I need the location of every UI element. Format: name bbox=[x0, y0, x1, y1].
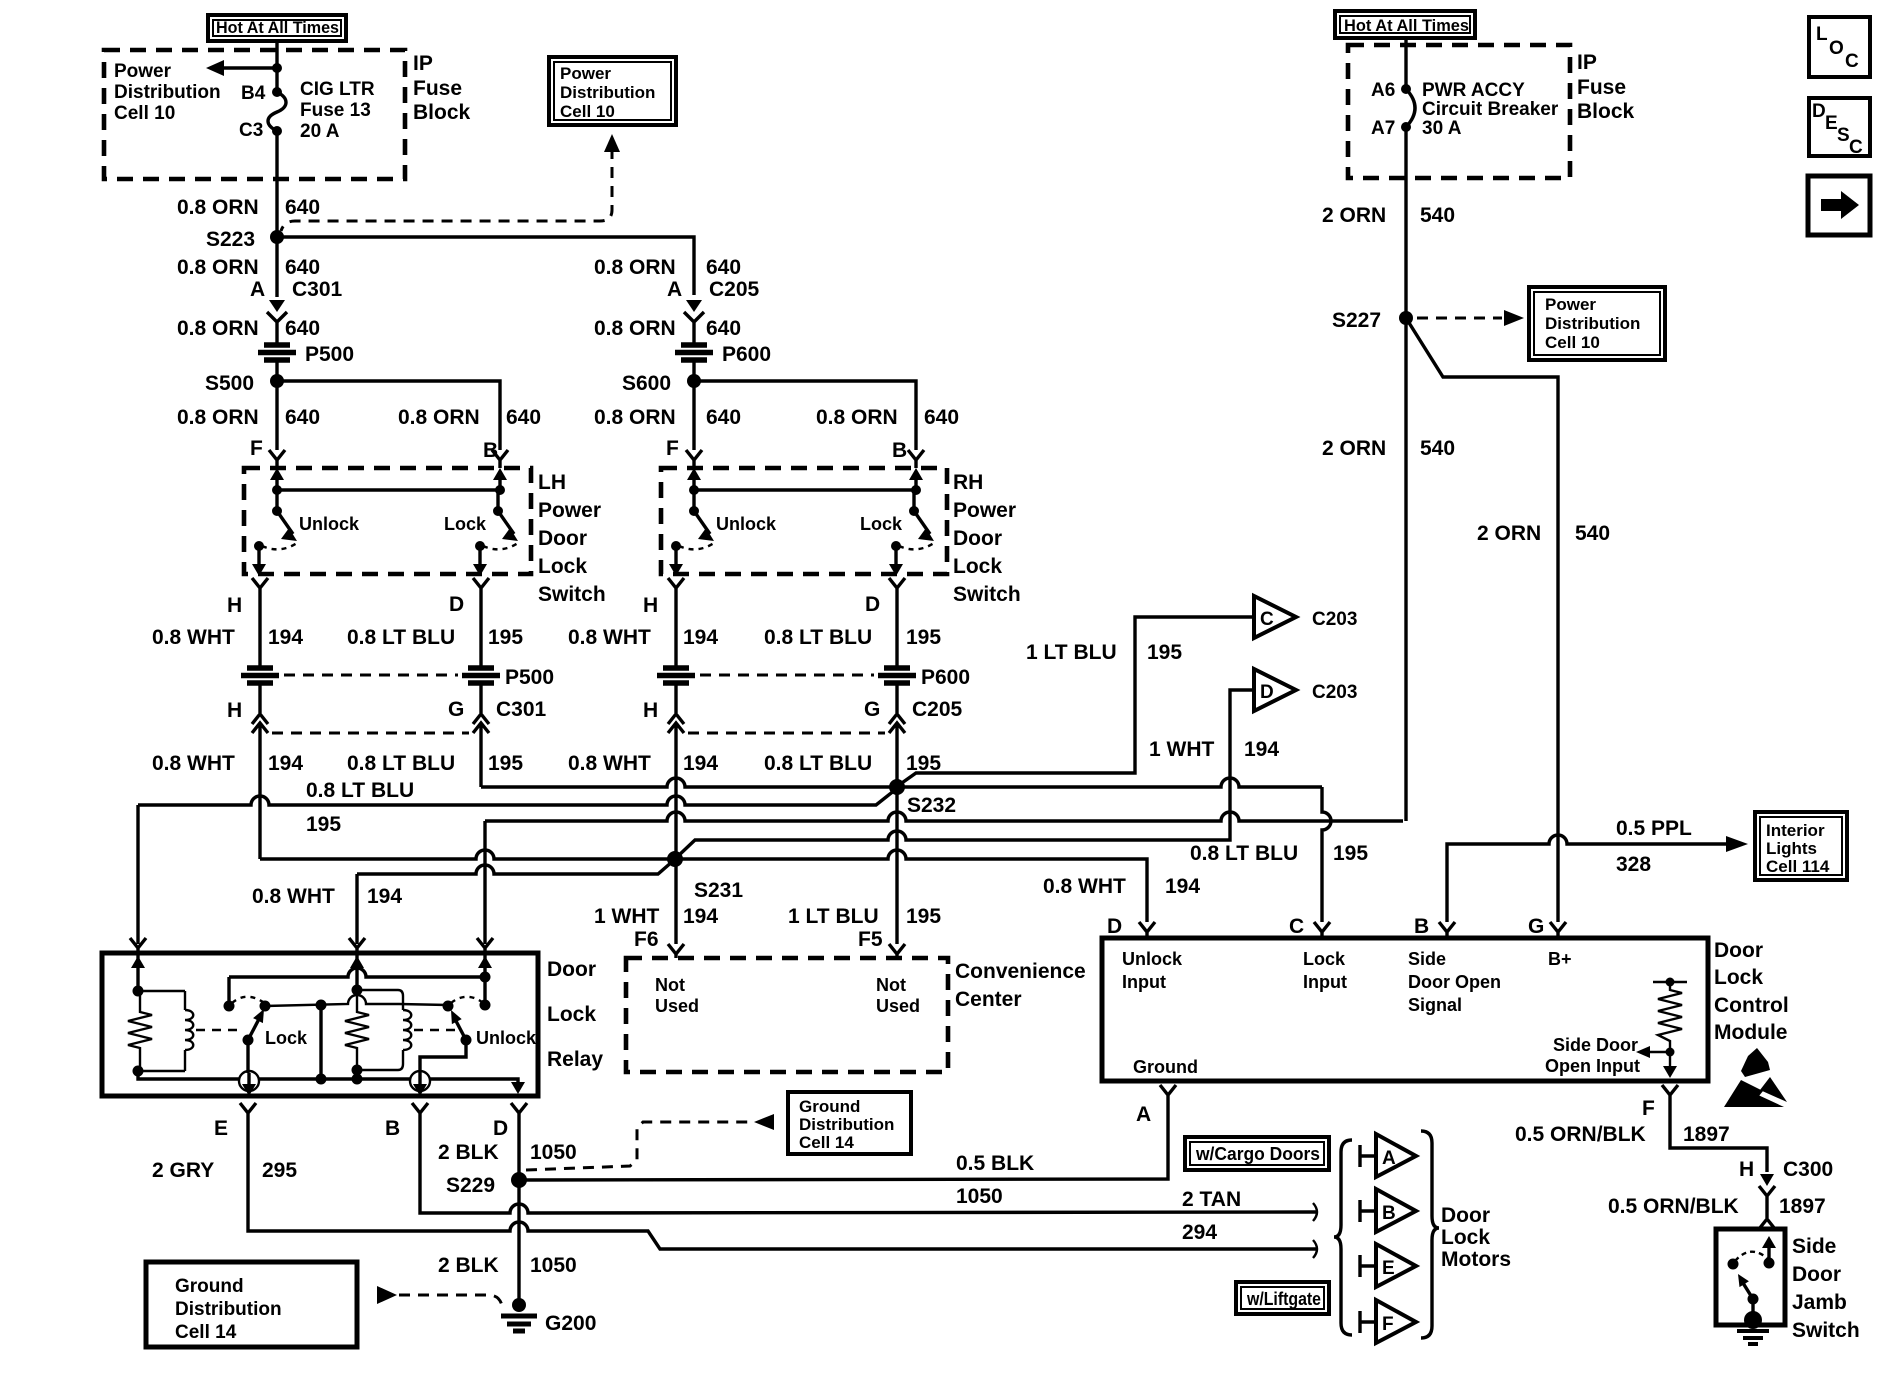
motors closing brace bbox=[1421, 1131, 1439, 1338]
hook at motor B wire end bbox=[1313, 1203, 1317, 1221]
svg-text:2 TAN: 2 TAN bbox=[1182, 1188, 1241, 1211]
wire module F to C300 (0.5 ORN/BLK) bbox=[1670, 1099, 1767, 1172]
svg-text:2 BLK: 2 BLK bbox=[438, 1254, 499, 1277]
label 0.8 LT BLU 195 (long run) bbox=[306, 779, 414, 836]
wire S227 branch to B+ column bbox=[1406, 318, 1558, 922]
svg-text:Fuse: Fuse bbox=[1577, 76, 1626, 99]
svg-text:640: 640 bbox=[506, 406, 541, 429]
svg-text:Door Open: Door Open bbox=[1408, 972, 1501, 992]
label 1 LT BLU 195 (C203 C leg) bbox=[1026, 641, 1182, 664]
svg-text:Distribution: Distribution bbox=[114, 82, 221, 103]
svg-text:Hot At All Times: Hot At All Times bbox=[216, 18, 339, 37]
svg-text:0.8 ORN: 0.8 ORN bbox=[816, 406, 898, 429]
svg-text:D: D bbox=[865, 593, 880, 616]
svg-text:S: S bbox=[1837, 125, 1850, 146]
pin letters H G C301 / H G C205 bbox=[227, 698, 963, 722]
dashed link lock coil to lock switch bbox=[196, 1029, 238, 1031]
wire S231 to C203 D (y840) bbox=[677, 690, 1254, 857]
dashed link P600 bbox=[700, 674, 874, 677]
wire relay C run (y821) to S227 vertical bbox=[485, 812, 1403, 821]
svg-text:H: H bbox=[643, 594, 658, 617]
svg-text:195: 195 bbox=[1147, 641, 1182, 664]
IP fuse block dashed box (left) bbox=[104, 50, 405, 179]
relay D exit arrow bbox=[511, 1082, 525, 1094]
connector fork relay pin C bbox=[477, 938, 493, 953]
svg-text:0.8 LT BLU: 0.8 LT BLU bbox=[764, 752, 872, 775]
svg-text:D: D bbox=[449, 593, 464, 616]
svg-text:2 BLK: 2 BLK bbox=[438, 1141, 499, 1164]
wire LH D down to corner bbox=[479, 744, 482, 787]
connector C205 in-line bbox=[667, 278, 760, 330]
svg-text:Lock: Lock bbox=[444, 514, 487, 534]
svg-text:Hot At All Times: Hot At All Times bbox=[1344, 16, 1469, 35]
svg-text:Door: Door bbox=[538, 527, 587, 550]
label 0.8 WHT 194 (module D leg) bbox=[1043, 875, 1200, 898]
grommet P600 bbox=[675, 343, 771, 366]
svg-text:0.8 LT BLU: 0.8 LT BLU bbox=[306, 779, 414, 802]
svg-text:Lock: Lock bbox=[538, 555, 587, 578]
svg-text:Lock: Lock bbox=[860, 514, 903, 534]
fuse CIG LTR Fuse 13 20A bbox=[239, 79, 375, 142]
svg-text:1050: 1050 bbox=[530, 1141, 577, 1164]
label 2 GRY 295 bbox=[152, 1159, 297, 1182]
label 0.5 ORN/BLK 1897 (lower) bbox=[1608, 1195, 1826, 1218]
svg-text:IP: IP bbox=[413, 52, 433, 75]
svg-text:P500: P500 bbox=[505, 666, 554, 689]
label "IP Fuse Block" (right) bbox=[1577, 51, 1635, 123]
svg-text:G200: G200 bbox=[545, 1312, 596, 1335]
svg-text:w/Cargo Doors: w/Cargo Doors bbox=[1195, 1144, 1320, 1164]
relay box bbox=[102, 953, 538, 1096]
connector fork D below LH switch bbox=[473, 578, 489, 597]
svg-text:C205: C205 bbox=[709, 278, 760, 301]
label Convenience Center bbox=[955, 960, 1086, 1011]
label 0.8 ORN 640 above P500 bbox=[177, 317, 320, 340]
svg-text:194: 194 bbox=[683, 752, 718, 775]
svg-text:20 A: 20 A bbox=[300, 121, 340, 142]
ESD symbol bbox=[1724, 1048, 1787, 1107]
label Door Lock Control Module bbox=[1714, 939, 1789, 1044]
svg-text:PWR ACCY: PWR ACCY bbox=[1422, 80, 1525, 101]
connector fork relay pin D bbox=[511, 1103, 527, 1120]
F6 fork bbox=[668, 944, 684, 958]
svg-text:Cell 14: Cell 14 bbox=[175, 1322, 237, 1343]
svg-text:S600: S600 bbox=[622, 372, 671, 395]
box Ground Distribution Cell 14 (right) bbox=[788, 1092, 911, 1154]
label 0.8 ORN 640 (RH top) bbox=[594, 256, 741, 279]
svg-text:640: 640 bbox=[285, 196, 320, 219]
wire LH H down bbox=[258, 597, 261, 666]
svg-text:Unlock: Unlock bbox=[476, 1028, 537, 1048]
svg-text:Lights: Lights bbox=[1766, 839, 1817, 858]
wire S223 down bbox=[275, 237, 278, 297]
svg-text:640: 640 bbox=[285, 406, 320, 429]
svg-text:Door: Door bbox=[547, 958, 596, 981]
wire RH H lens to C205 bbox=[674, 685, 677, 713]
svg-text:295: 295 bbox=[262, 1159, 297, 1182]
relay C to switches rail bbox=[229, 968, 485, 977]
svg-text:Power: Power bbox=[538, 499, 601, 522]
svg-text:0.8 WHT: 0.8 WHT bbox=[152, 752, 235, 775]
connector fork module pin C bbox=[1314, 922, 1330, 938]
wire S231 down to F6 bbox=[674, 859, 677, 944]
splice S227 bbox=[1332, 309, 1413, 332]
svg-text:Open Input: Open Input bbox=[1545, 1056, 1640, 1076]
svg-text:E: E bbox=[1825, 113, 1838, 134]
svg-text:C301: C301 bbox=[496, 698, 547, 721]
label LH Power Door Lock Switch bbox=[538, 471, 606, 606]
connector fork relay pin B bbox=[412, 1103, 428, 1120]
box fast forward arrow bbox=[1808, 176, 1870, 235]
svg-text:B: B bbox=[1414, 915, 1429, 938]
connector fork F (LH switch) bbox=[269, 450, 285, 468]
label box "Hot At All Times" (left) bbox=[208, 15, 346, 41]
svg-text:B4: B4 bbox=[241, 83, 266, 104]
box w/Liftgate bbox=[1236, 1282, 1329, 1314]
connector fork module pin D bbox=[1139, 922, 1155, 938]
svg-text:294: 294 bbox=[1182, 1221, 1217, 1244]
wire relay A pin down bbox=[355, 874, 358, 944]
LH switch internal rail bbox=[270, 468, 507, 495]
wire LH D to S232 (y787) bbox=[481, 778, 897, 787]
label 0.5 BLK 1050 bbox=[956, 1152, 1034, 1208]
svg-text:640: 640 bbox=[285, 317, 320, 340]
svg-text:A: A bbox=[1382, 1148, 1396, 1169]
box w/Cargo Doors bbox=[1185, 1137, 1329, 1170]
F5 fork bbox=[889, 944, 905, 958]
svg-text:Lock: Lock bbox=[547, 1003, 596, 1026]
text Power Distribution Cell 10 (inside left fuse box) bbox=[114, 61, 221, 124]
svg-text:Side: Side bbox=[1792, 1235, 1836, 1258]
svg-text:Circuit Breaker: Circuit Breaker bbox=[1422, 99, 1559, 120]
svg-text:1 WHT: 1 WHT bbox=[1149, 738, 1215, 761]
svg-text:G: G bbox=[448, 698, 464, 721]
svg-text:0.8 WHT: 0.8 WHT bbox=[252, 885, 335, 908]
svg-text:Door: Door bbox=[1441, 1204, 1490, 1227]
label 1 WHT 194 (C203 D leg) bbox=[1149, 738, 1279, 761]
svg-text:1 WHT: 1 WHT bbox=[594, 905, 660, 928]
jamb switch internals bbox=[1728, 1236, 1777, 1344]
motor F triangle bbox=[1360, 1300, 1416, 1343]
svg-text:F: F bbox=[1382, 1314, 1394, 1335]
svg-text:0.8 LT BLU: 0.8 LT BLU bbox=[1190, 842, 1298, 865]
svg-text:Input: Input bbox=[1122, 972, 1166, 992]
connector C203 D triangle bbox=[1254, 669, 1357, 711]
labels 0.8 WHT 194 / 0.8 LT BLU 195 row 1 bbox=[152, 626, 941, 649]
svg-text:0.8 ORN: 0.8 ORN bbox=[594, 256, 676, 279]
svg-text:0.5 PPL: 0.5 PPL bbox=[1616, 817, 1692, 840]
label 2 TAN 294 bbox=[1182, 1188, 1241, 1244]
relay C entry arrow bbox=[478, 955, 492, 977]
text Unlock Input bbox=[1122, 949, 1183, 992]
svg-text:O: O bbox=[1829, 38, 1844, 59]
convenience center dashed box bbox=[626, 958, 948, 1072]
motor A triangle bbox=[1360, 1134, 1416, 1177]
wire S231 to module D (y859) bbox=[675, 850, 1147, 922]
splice S500 bbox=[205, 372, 284, 395]
svg-text:w/Liftgate: w/Liftgate bbox=[1246, 1289, 1321, 1309]
svg-text:C3: C3 bbox=[239, 120, 263, 141]
svg-text:G: G bbox=[864, 698, 880, 721]
svg-text:30 A: 30 A bbox=[1422, 118, 1462, 139]
svg-text:Cell 10: Cell 10 bbox=[1545, 333, 1600, 352]
text Side Door Open Signal bbox=[1408, 949, 1501, 1015]
svg-text:Ground: Ground bbox=[175, 1276, 244, 1297]
box Power Distribution Cell 10 (top middle) bbox=[549, 57, 676, 125]
wire from Hot At All Times down bbox=[275, 41, 278, 92]
svg-text:Power: Power bbox=[560, 64, 611, 83]
wire P500 to S500 to LH switch F bbox=[275, 362, 278, 450]
svg-text:194: 194 bbox=[268, 626, 303, 649]
svg-text:Door: Door bbox=[1792, 1263, 1841, 1286]
svg-text:S229: S229 bbox=[446, 1174, 495, 1197]
svg-text:1897: 1897 bbox=[1779, 1195, 1826, 1218]
svg-text:A: A bbox=[1136, 1103, 1151, 1126]
svg-text:C: C bbox=[1289, 915, 1304, 938]
svg-text:Lock: Lock bbox=[1303, 949, 1346, 969]
label 0.8 ORN 640 bbox=[177, 196, 320, 219]
svg-text:D: D bbox=[493, 1117, 508, 1140]
svg-text:E: E bbox=[1382, 1258, 1395, 1279]
svg-text:540: 540 bbox=[1575, 522, 1610, 545]
arrowhead toward S229 bbox=[754, 1114, 774, 1130]
svg-text:1050: 1050 bbox=[530, 1254, 577, 1277]
labels 0.8 WHT 194 / 0.8 LT BLU 195 row 2 bbox=[152, 752, 941, 775]
box DESC bbox=[1809, 98, 1870, 158]
svg-text:Cell 10: Cell 10 bbox=[114, 103, 175, 124]
svg-text:0.8 WHT: 0.8 WHT bbox=[152, 626, 235, 649]
label 0.5 ORN/BLK 1897 bbox=[1515, 1123, 1730, 1146]
connector C205 return forks bbox=[668, 714, 905, 744]
svg-text:Side Door: Side Door bbox=[1553, 1035, 1638, 1055]
svg-text:Not: Not bbox=[876, 975, 906, 995]
wire S232 to C203 C (y773) bbox=[899, 617, 1254, 785]
wire relay E (2 GRY) down and right to motors bbox=[248, 1120, 1316, 1249]
svg-text:Block: Block bbox=[1577, 100, 1635, 123]
svg-text:Jamb: Jamb bbox=[1792, 1291, 1847, 1314]
label 2 BLK 1050 bbox=[438, 1141, 577, 1164]
svg-text:Ground: Ground bbox=[1133, 1057, 1198, 1077]
label 0.8 LT BLU 195 (module C leg) bbox=[1190, 842, 1368, 865]
svg-text:IP: IP bbox=[1577, 51, 1597, 74]
svg-text:0.8 WHT: 0.8 WHT bbox=[1043, 875, 1126, 898]
connector fork relay pin A bbox=[349, 938, 365, 953]
svg-text:2 ORN: 2 ORN bbox=[1322, 204, 1386, 227]
svg-text:F6: F6 bbox=[634, 928, 659, 951]
svg-text:195: 195 bbox=[906, 905, 941, 928]
svg-text:0.8 ORN: 0.8 ORN bbox=[177, 317, 259, 340]
svg-text:Unlock: Unlock bbox=[299, 514, 360, 534]
connector fork relay pin F bbox=[130, 938, 146, 953]
wire LH D lens to C301 bbox=[479, 685, 482, 713]
module box bbox=[1102, 938, 1708, 1081]
wire C301 to P500 bbox=[275, 330, 278, 344]
box Power Distribution Cell 10 (right) bbox=[1529, 287, 1665, 360]
svg-text:0.5 ORN/BLK: 0.5 ORN/BLK bbox=[1515, 1123, 1646, 1146]
connector fork H below LH switch bbox=[252, 578, 268, 597]
LH unlock switch bbox=[252, 490, 360, 576]
svg-text:P600: P600 bbox=[722, 343, 771, 366]
box LOC bbox=[1809, 17, 1870, 77]
connector fork module pin B bbox=[1439, 922, 1455, 938]
connector C203 C triangle bbox=[1254, 596, 1357, 638]
svg-text:C300: C300 bbox=[1783, 1158, 1833, 1181]
connector fork F (RH switch) bbox=[686, 450, 702, 468]
svg-text:H: H bbox=[227, 594, 242, 617]
module ground pin A bbox=[1136, 1085, 1176, 1126]
svg-text:P600: P600 bbox=[921, 666, 970, 689]
svg-text:0.8 WHT: 0.8 WHT bbox=[568, 752, 651, 775]
svg-text:Relay: Relay bbox=[547, 1048, 603, 1071]
svg-text:Lock: Lock bbox=[265, 1028, 308, 1048]
wire RH H down to S231 bbox=[674, 744, 677, 859]
svg-text:C203: C203 bbox=[1312, 609, 1357, 630]
svg-text:Module: Module bbox=[1714, 1021, 1788, 1044]
wire hot to breaker bbox=[1404, 38, 1407, 89]
svg-text:E: E bbox=[214, 1117, 228, 1140]
relay bottom rail bbox=[138, 1071, 518, 1088]
svg-text:C: C bbox=[1845, 51, 1859, 72]
LH switch dashed box bbox=[244, 468, 531, 574]
svg-text:RH: RH bbox=[953, 471, 983, 494]
svg-text:1 LT BLU: 1 LT BLU bbox=[788, 905, 879, 928]
dashed reference line S223 to Power Distribution box with up arrow bbox=[281, 134, 620, 231]
svg-text:A6: A6 bbox=[1371, 80, 1395, 101]
dashed link P500 bbox=[284, 674, 458, 677]
label "IP Fuse Block" (left) bbox=[413, 52, 471, 124]
svg-text:2 ORN: 2 ORN bbox=[1477, 522, 1541, 545]
svg-text:Unlock: Unlock bbox=[1122, 949, 1183, 969]
svg-text:0.8 ORN: 0.8 ORN bbox=[177, 406, 259, 429]
wire RH D down to S232 bbox=[895, 744, 898, 787]
wire relay F run (y805) to S232 bbox=[138, 790, 895, 805]
svg-text:D: D bbox=[1812, 101, 1826, 122]
label box "Hot At All Times" (right) bbox=[1335, 11, 1475, 38]
grommet P500 (LH D) bbox=[462, 666, 554, 689]
relay unlock switch bbox=[420, 977, 537, 1072]
svg-text:F: F bbox=[666, 437, 679, 460]
wire S229 to module ground A (0.5 BLK) bbox=[519, 1099, 1168, 1180]
svg-text:0.8 ORN: 0.8 ORN bbox=[177, 196, 259, 219]
svg-text:Fuse 13: Fuse 13 bbox=[300, 100, 371, 121]
svg-text:F: F bbox=[1642, 1097, 1655, 1120]
wire lock contact to unlock coil bbox=[265, 995, 448, 1006]
svg-text:S500: S500 bbox=[205, 372, 254, 395]
svg-text:194: 194 bbox=[367, 885, 402, 908]
wire RH D down bbox=[895, 597, 898, 666]
relay lock switch bbox=[224, 977, 309, 1073]
wire C205 to P600 bbox=[692, 330, 695, 344]
svg-text:0.8 ORN: 0.8 ORN bbox=[398, 406, 480, 429]
wire LH H lens to C301 bbox=[258, 685, 261, 713]
svg-text:1897: 1897 bbox=[1683, 1123, 1730, 1146]
svg-text:Lock: Lock bbox=[1441, 1226, 1490, 1249]
label 2 ORN 540 bbox=[1322, 204, 1455, 227]
svg-text:L: L bbox=[1816, 24, 1828, 45]
svg-text:S223: S223 bbox=[206, 228, 255, 251]
arrow + dashed ref to G200 wire bbox=[377, 1286, 502, 1306]
svg-text:194: 194 bbox=[268, 752, 303, 775]
svg-text:194: 194 bbox=[1165, 875, 1200, 898]
svg-text:Switch: Switch bbox=[953, 583, 1021, 606]
svg-text:195: 195 bbox=[906, 626, 941, 649]
svg-text:Used: Used bbox=[655, 996, 699, 1016]
svg-text:Cell 14: Cell 14 bbox=[799, 1133, 854, 1152]
svg-text:Motors: Motors bbox=[1441, 1248, 1511, 1271]
relay A entry arrow bbox=[350, 955, 364, 990]
svg-text:0.8 LT BLU: 0.8 LT BLU bbox=[347, 752, 455, 775]
svg-text:Distribution: Distribution bbox=[560, 83, 655, 102]
svg-text:Unlock: Unlock bbox=[716, 514, 777, 534]
relay B exit circle bbox=[410, 1071, 430, 1096]
svg-text:0.5 ORN/BLK: 0.5 ORN/BLK bbox=[1608, 1195, 1739, 1218]
RH switch internal rail bbox=[687, 468, 923, 495]
labels 0.8 ORN 640 row above RH switch bbox=[594, 406, 959, 429]
splice S223 bbox=[206, 228, 284, 251]
label 1 LT BLU 195 (F5 leg) bbox=[788, 905, 941, 951]
wire P600 to S600 to RH switch F bbox=[692, 362, 695, 450]
svg-text:S227: S227 bbox=[1332, 309, 1381, 332]
svg-text:F5: F5 bbox=[858, 928, 883, 951]
svg-text:Switch: Switch bbox=[538, 583, 606, 606]
svg-text:B: B bbox=[1382, 1203, 1396, 1224]
svg-text:540: 540 bbox=[1420, 437, 1455, 460]
label RH Power Door Lock Switch bbox=[953, 471, 1021, 606]
RH unlock switch bbox=[669, 490, 777, 576]
svg-text:Power: Power bbox=[1545, 295, 1596, 314]
motor E triangle bbox=[1360, 1244, 1416, 1287]
grommet P500 bbox=[258, 343, 354, 366]
svg-text:D: D bbox=[1107, 915, 1122, 938]
svg-text:540: 540 bbox=[1420, 204, 1455, 227]
svg-text:B: B bbox=[892, 439, 907, 462]
connector fork module pin G bbox=[1550, 922, 1566, 938]
svg-text:Control: Control bbox=[1714, 994, 1789, 1017]
arrow to power distribution (left) bbox=[206, 60, 282, 76]
wire breaker down to S227 bbox=[1404, 127, 1407, 318]
svg-text:Center: Center bbox=[955, 988, 1022, 1011]
ground G200 bbox=[501, 1298, 596, 1335]
svg-text:Fuse: Fuse bbox=[413, 77, 462, 100]
svg-text:Distribution: Distribution bbox=[1545, 314, 1640, 333]
wire C300 to jamb switch bbox=[1765, 1203, 1768, 1218]
svg-text:Used: Used bbox=[876, 996, 920, 1016]
labels 0.8 ORN 640 row above LH switch bbox=[177, 406, 541, 429]
text Not Used (F5) bbox=[876, 975, 920, 1016]
svg-text:C: C bbox=[1260, 609, 1274, 630]
motors opening brace bbox=[1334, 1140, 1352, 1335]
wire module B to interior lights (0.5 PPL) bbox=[1447, 835, 1748, 922]
splice S229 bbox=[446, 1172, 527, 1197]
svg-text:Interior: Interior bbox=[1766, 821, 1825, 840]
svg-text:CIG LTR: CIG LTR bbox=[300, 79, 375, 100]
LH lock switch bbox=[444, 490, 518, 576]
dashed arrow S227 to power distribution box bbox=[1417, 310, 1524, 326]
relay F entry arrow bbox=[131, 955, 145, 991]
connector fork B (RH switch) bbox=[908, 450, 924, 468]
svg-text:H: H bbox=[227, 699, 242, 722]
svg-text:Door: Door bbox=[953, 527, 1002, 550]
svg-text:194: 194 bbox=[1244, 738, 1279, 761]
svg-text:D: D bbox=[1260, 682, 1274, 703]
svg-text:195: 195 bbox=[306, 813, 341, 836]
text Lock Input bbox=[1303, 949, 1347, 992]
text Side Door Open Input bbox=[1545, 1035, 1640, 1076]
svg-text:1050: 1050 bbox=[956, 1185, 1003, 1208]
wire relay C pin down bbox=[483, 821, 486, 944]
wire relay F pin down bbox=[136, 805, 139, 944]
svg-text:A7: A7 bbox=[1371, 118, 1395, 139]
